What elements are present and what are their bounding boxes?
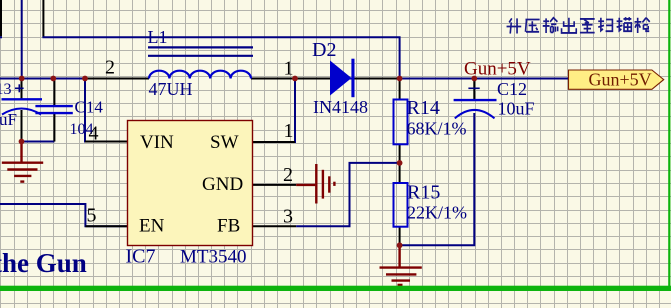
wire: VIN drop from node to VIN pin bbox=[85, 79, 128, 142]
pin: D2 pins bbox=[295, 78, 400, 80]
svg-text:R14: R14 bbox=[407, 97, 440, 119]
svg-text:22K/1%: 22K/1% bbox=[407, 203, 467, 223]
svg-text:SW: SW bbox=[210, 132, 239, 153]
svg-text:VIN: VIN bbox=[140, 132, 174, 153]
svg-text:68K/1%: 68K/1% bbox=[407, 119, 467, 139]
svg-text:C12: C12 bbox=[497, 79, 527, 99]
value 104 bbox=[70, 121, 94, 138]
char 压 bbox=[525, 20, 539, 32]
char 出 bbox=[562, 18, 577, 33]
label R15 bbox=[407, 182, 440, 204]
char 输 bbox=[543, 18, 558, 33]
svg-text:2: 2 bbox=[283, 164, 293, 186]
pin number 3 (FB) bbox=[283, 206, 293, 228]
pin name GND bbox=[202, 174, 243, 195]
inductor L1 bbox=[148, 47, 253, 78]
capacitor C14 bbox=[35, 106, 72, 113]
label C13 (cut) bbox=[0, 81, 12, 98]
pin: FB pin line bbox=[253, 225, 297, 227]
svg-text:uF: uF bbox=[0, 110, 17, 129]
char 描 bbox=[617, 17, 632, 31]
capacitor C13 (partial, electrolytic) bbox=[2, 84, 43, 114]
wire: vertical from top to feedback-loop corner bbox=[42, 0, 44, 37]
resistor R15 bbox=[394, 183, 408, 227]
svg-text:D2: D2 bbox=[312, 39, 336, 61]
pin number 5 (EN) bbox=[87, 205, 97, 227]
junction node (VIN tap) bbox=[82, 76, 88, 82]
pin: R15 pins bbox=[399, 163, 401, 245]
pin name SW bbox=[210, 132, 239, 153]
svg-text:L1: L1 bbox=[148, 27, 168, 47]
svg-text:2: 2 bbox=[105, 57, 115, 79]
value 68K/1% bbox=[407, 119, 467, 139]
svg-text:4: 4 bbox=[89, 123, 99, 145]
pin: EN pin line bbox=[85, 225, 127, 227]
green sheet edge (bottom) bbox=[0, 286, 671, 291]
svg-text:GND: GND bbox=[202, 174, 243, 195]
pin name VIN bbox=[140, 132, 174, 153]
label L1 bbox=[148, 27, 168, 47]
port Gun+5V bbox=[569, 70, 664, 90]
value MT3540 bbox=[180, 247, 247, 268]
pin number 2 (L1) bbox=[105, 57, 115, 79]
wire: main horizontal net (VIN rail) bbox=[0, 78, 149, 80]
pin: SW pin line bbox=[253, 141, 296, 143]
pin number 4 (VIN) bbox=[89, 123, 99, 145]
ground (left, below C13/C14) bbox=[2, 142, 43, 182]
char 枪 bbox=[635, 18, 650, 33]
value 22K/1% bbox=[407, 203, 467, 223]
pin: C13 pins bbox=[21, 79, 23, 142]
label R14 bbox=[407, 97, 440, 119]
junction node (SW / D2 anode) bbox=[292, 76, 298, 82]
pin: VIN pin line bbox=[85, 141, 128, 143]
value 10uF bbox=[498, 99, 535, 119]
svg-text:IN4148: IN4148 bbox=[313, 97, 368, 117]
ground (rotated, at GND pin) bbox=[296, 164, 334, 204]
char 至 bbox=[580, 19, 595, 33]
svg-text:EN: EN bbox=[139, 216, 165, 237]
wire: FB net to divider midpoint bbox=[296, 163, 399, 226]
diode D2 bbox=[330, 59, 355, 97]
wire: SW pin up to diode anode node bbox=[253, 79, 296, 143]
svg-text:10uF: 10uF bbox=[498, 99, 535, 119]
IC U7 MT3540 body bbox=[128, 121, 253, 246]
pin number 1 (L1) bbox=[284, 58, 294, 80]
pin name FB bbox=[217, 216, 240, 237]
net label Gun+5V bbox=[464, 59, 531, 80]
svg-text:FB: FB bbox=[217, 216, 240, 237]
green sheet edge (right) bbox=[668, 0, 670, 286]
junction node A (C13 tap) bbox=[19, 76, 25, 82]
resistor R14 bbox=[394, 100, 408, 145]
value IN4148 bbox=[313, 97, 368, 117]
pin: C14 pins bbox=[53, 79, 55, 142]
svg-text:1: 1 bbox=[284, 58, 294, 80]
wire: main horizontal net from inductor to output port bbox=[251, 78, 569, 80]
wire: capacitor bottom link bbox=[22, 141, 55, 143]
svg-text:MT3540: MT3540 bbox=[180, 247, 247, 268]
wire: left stub off-screen pin bbox=[0, 0, 2, 37]
junction node (D2 cathode / R14) bbox=[397, 76, 403, 82]
wire: EN net from left edge bbox=[0, 204, 128, 226]
pin: GND pin line bbox=[253, 184, 297, 186]
pin: R14 pins bbox=[399, 79, 401, 163]
junction node (R15 bottom) bbox=[397, 242, 403, 248]
label IC7 bbox=[126, 246, 156, 268]
ground (bottom, below R15) bbox=[380, 245, 422, 285]
pin number 1 (SW) bbox=[284, 120, 294, 142]
svg-text:the Gun: the Gun bbox=[0, 248, 87, 278]
svg-text:1: 1 bbox=[284, 120, 294, 142]
char 升 bbox=[507, 18, 522, 33]
pin name EN bbox=[139, 216, 165, 237]
junction node (C12 tap) bbox=[471, 76, 477, 82]
svg-text:C14: C14 bbox=[75, 98, 104, 117]
wire: R15 bottom to C12 bottom bbox=[400, 113, 475, 245]
junction node (C14 tap) bbox=[50, 76, 56, 82]
capacitor C12 (electrolytic) bbox=[454, 88, 497, 118]
svg-text:R15: R15 bbox=[407, 182, 440, 204]
wire: top horizontal net to diode output node bbox=[42, 37, 399, 78]
pin: L1 pins bbox=[86, 78, 295, 80]
svg-text:3: 3 bbox=[283, 206, 293, 228]
pin: C12 top pin bbox=[473, 79, 475, 101]
svg-text:13: 13 bbox=[0, 81, 12, 98]
junction node (cap bottoms) bbox=[19, 139, 25, 145]
char 扫 bbox=[598, 18, 612, 31]
label C12 bbox=[497, 79, 527, 99]
sheet title: the Gun bbox=[0, 248, 87, 278]
value 47UH bbox=[149, 79, 193, 99]
annotation: Chinese note (drawn strokes) bbox=[507, 17, 650, 33]
svg-text:47UH: 47UH bbox=[149, 79, 193, 99]
label D2 bbox=[312, 39, 336, 61]
label C14 bbox=[75, 98, 104, 117]
wire: vertical from top into node A bbox=[21, 0, 23, 79]
svg-text:Gun+5V: Gun+5V bbox=[589, 70, 652, 90]
value C13 uF (cut) bbox=[0, 110, 17, 129]
pin number 2 (GND) bbox=[283, 164, 293, 186]
svg-text:IC7: IC7 bbox=[126, 246, 156, 268]
junction node (R14/R15 midpoint) bbox=[397, 160, 403, 166]
svg-text:5: 5 bbox=[87, 205, 97, 227]
